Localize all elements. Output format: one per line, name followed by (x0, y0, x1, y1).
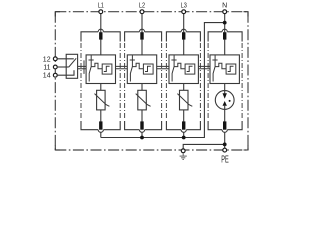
terminal earth (bottom) (181, 149, 185, 153)
thermal disconnector top N (223, 32, 226, 39)
module N top bracket (208, 32, 242, 42)
spark gap L2 trigger link (132, 63, 143, 69)
module L1 bottom bracket (81, 121, 120, 130)
module L3 bottom bracket (166, 121, 200, 130)
wire N bus (module outputs to N conductor) (101, 23, 225, 138)
thermal disconnector bottom L3 (182, 121, 185, 129)
module L2 left boundary (dash-dot) (124, 43, 126, 120)
spark gap L3 electrode (172, 55, 174, 81)
thermal disconnector bottom L1 (99, 121, 102, 129)
terminal L3 (182, 10, 186, 14)
svg-text:L1: L1 (98, 3, 104, 10)
wire N spark gap to lower element (224, 84, 226, 94)
trigger device L1 box (102, 64, 112, 74)
module N right boundary (dash-dot) (241, 43, 243, 120)
wire terminal 11 to contact (57, 66, 69, 68)
module L2 top bracket (125, 32, 162, 42)
N-PE spark gap bottom electrode arrow (223, 101, 227, 106)
module N left boundary (dash-dot) (207, 43, 209, 120)
wire hop arc bottom N (222, 130, 227, 133)
terminal L1 (99, 10, 103, 14)
svg-text:14: 14 (43, 73, 51, 80)
wire L2 varistor to disconnector (141, 110, 143, 122)
terminal L2 (140, 10, 144, 14)
wire terminal 12 to contact (57, 58, 74, 60)
remote signalling contact box (66, 54, 77, 78)
changeover contact blade (69, 58, 76, 67)
terminal 11 (53, 65, 57, 69)
enclosure border bottom (dash-dot) (55, 149, 248, 151)
trigger device L3 box (185, 64, 195, 74)
spark gap L3 trigger link (174, 63, 185, 69)
module L3 left boundary (dash-dot) (165, 43, 167, 120)
wire L2 disconnector to spark gap (141, 39, 143, 55)
thermal disconnector top L3 (182, 32, 185, 39)
wire hop arc top L3 (181, 29, 186, 32)
N-PE spark gap gas symbol dot (229, 100, 231, 102)
module L1 top bracket (81, 32, 120, 42)
enclosure border corner caps (55, 12, 248, 150)
wire terminal 14 to contact (57, 70, 74, 75)
wire L1 spark gap to lower element (100, 84, 102, 91)
wire N disconnector to spark gap (224, 39, 226, 55)
trigger device L1 step curve (104, 66, 110, 71)
wire L3 spark gap to lower element (183, 84, 185, 91)
svg-text:L3: L3 (181, 3, 187, 10)
mechanical linkage L1 to L2 (116, 66, 128, 68)
wire hop arc bottom L3 (181, 130, 186, 133)
trigger device L3 step curve (187, 66, 193, 71)
junction dot N terminal branch (223, 21, 227, 25)
enclosure border top (dash-dot) (55, 11, 248, 13)
spark gap N trigger link (215, 63, 226, 69)
wire hop arc top L1 (98, 29, 103, 32)
module L3 top bracket (166, 32, 200, 42)
terminal 14 (53, 73, 57, 77)
ground symbol (180, 153, 187, 160)
svg-text:11: 11 (43, 65, 50, 72)
mechanical linkage L2 to L3 (157, 66, 169, 68)
trigger device N step curve (228, 66, 234, 71)
module L1 right boundary (dash-dot) (119, 43, 121, 120)
trigger device L2 box (143, 64, 153, 74)
wire L3 disconnector to spark gap (183, 39, 185, 55)
junction dot L2 on N bus (140, 136, 144, 140)
triggered spark gap L1 box (86, 55, 115, 84)
module N bottom bracket (208, 121, 242, 130)
junction dot L3 on N bus (182, 136, 186, 140)
wire L1 varistor to disconnector (100, 110, 102, 122)
varistor L3 body (180, 90, 189, 110)
wire L3 terminal to disconnector (183, 14, 185, 33)
wire L1 module to N bus (100, 132, 102, 137)
enclosure border left (dash-dot) (54, 12, 56, 150)
varistor L1 diagonal (95, 94, 110, 107)
thermal disconnector top L1 (99, 32, 102, 39)
svg-text:N: N (222, 3, 227, 10)
mechanical linkage bar (83, 60, 85, 74)
varistor L2 diagonal (136, 94, 151, 107)
thermal disconnector bottom L2 (140, 121, 143, 129)
trigger device L2 step curve (145, 66, 151, 71)
wire earth terminal to PE node (183, 144, 225, 149)
wire hop arc top L2 (139, 29, 144, 32)
trigger device N box (226, 64, 236, 74)
spark gap L1 electrode (89, 55, 91, 81)
varistor L3 diagonal (177, 94, 192, 107)
wire N terminal to disconnector (224, 14, 226, 33)
wire N module to PE node (224, 132, 226, 148)
wire L1 disconnector to spark gap (100, 39, 102, 55)
wire L2 module to N bus (141, 132, 143, 137)
wire hop arc bottom L1 (98, 130, 103, 133)
mechanical linkage L3 to N (198, 66, 210, 68)
wire L2 terminal to disconnector (141, 14, 143, 33)
wire L1 terminal to disconnector (100, 14, 102, 33)
varistor L1 body (97, 90, 106, 110)
N-PE spark gap circle (215, 91, 234, 110)
wire L2 spark gap to lower element (141, 84, 143, 91)
spark gap L2 electrode (130, 55, 132, 81)
triggered spark gap L3 box (169, 55, 198, 84)
terminal N (223, 10, 227, 14)
module L1 left boundary (dash-dot) (80, 43, 82, 120)
wire L3 module to N bus (183, 132, 185, 137)
triggered spark gap N box (210, 55, 239, 84)
svg-text:L2: L2 (139, 3, 145, 10)
spark gap N electrode (213, 55, 215, 81)
mechanical linkage contact to L1 (78, 66, 87, 68)
spark gap L1 trigger link (91, 63, 102, 69)
terminal 12 (53, 57, 57, 61)
terminal PE (223, 148, 227, 152)
triggered spark gap L2 box (127, 55, 156, 84)
thermal disconnector top L2 (140, 32, 143, 39)
spark gap N electrode tick (212, 59, 217, 61)
junction dot PE node (223, 143, 227, 147)
enclosure border right (dash-dot) (247, 12, 249, 150)
spark gap L1 electrode tick (89, 59, 94, 61)
module L2 right boundary (dash-dot) (161, 43, 163, 120)
wire hop arc top N (222, 29, 227, 32)
spark gap L2 electrode tick (130, 59, 135, 61)
svg-text:12: 12 (43, 56, 51, 63)
wire hop arc bottom L2 (139, 130, 144, 133)
module L2 bottom bracket (125, 121, 162, 130)
spark gap L3 electrode tick (171, 59, 176, 61)
thermal disconnector bottom N (223, 121, 226, 129)
N-PE spark gap top electrode arrow (223, 93, 227, 99)
wire L3 varistor to disconnector (183, 110, 185, 122)
module L3 right boundary (dash-dot) (199, 43, 201, 120)
varistor L2 body (138, 90, 147, 110)
wire N gap to disconnector (224, 106, 226, 122)
svg-text:PE: PE (221, 154, 229, 164)
